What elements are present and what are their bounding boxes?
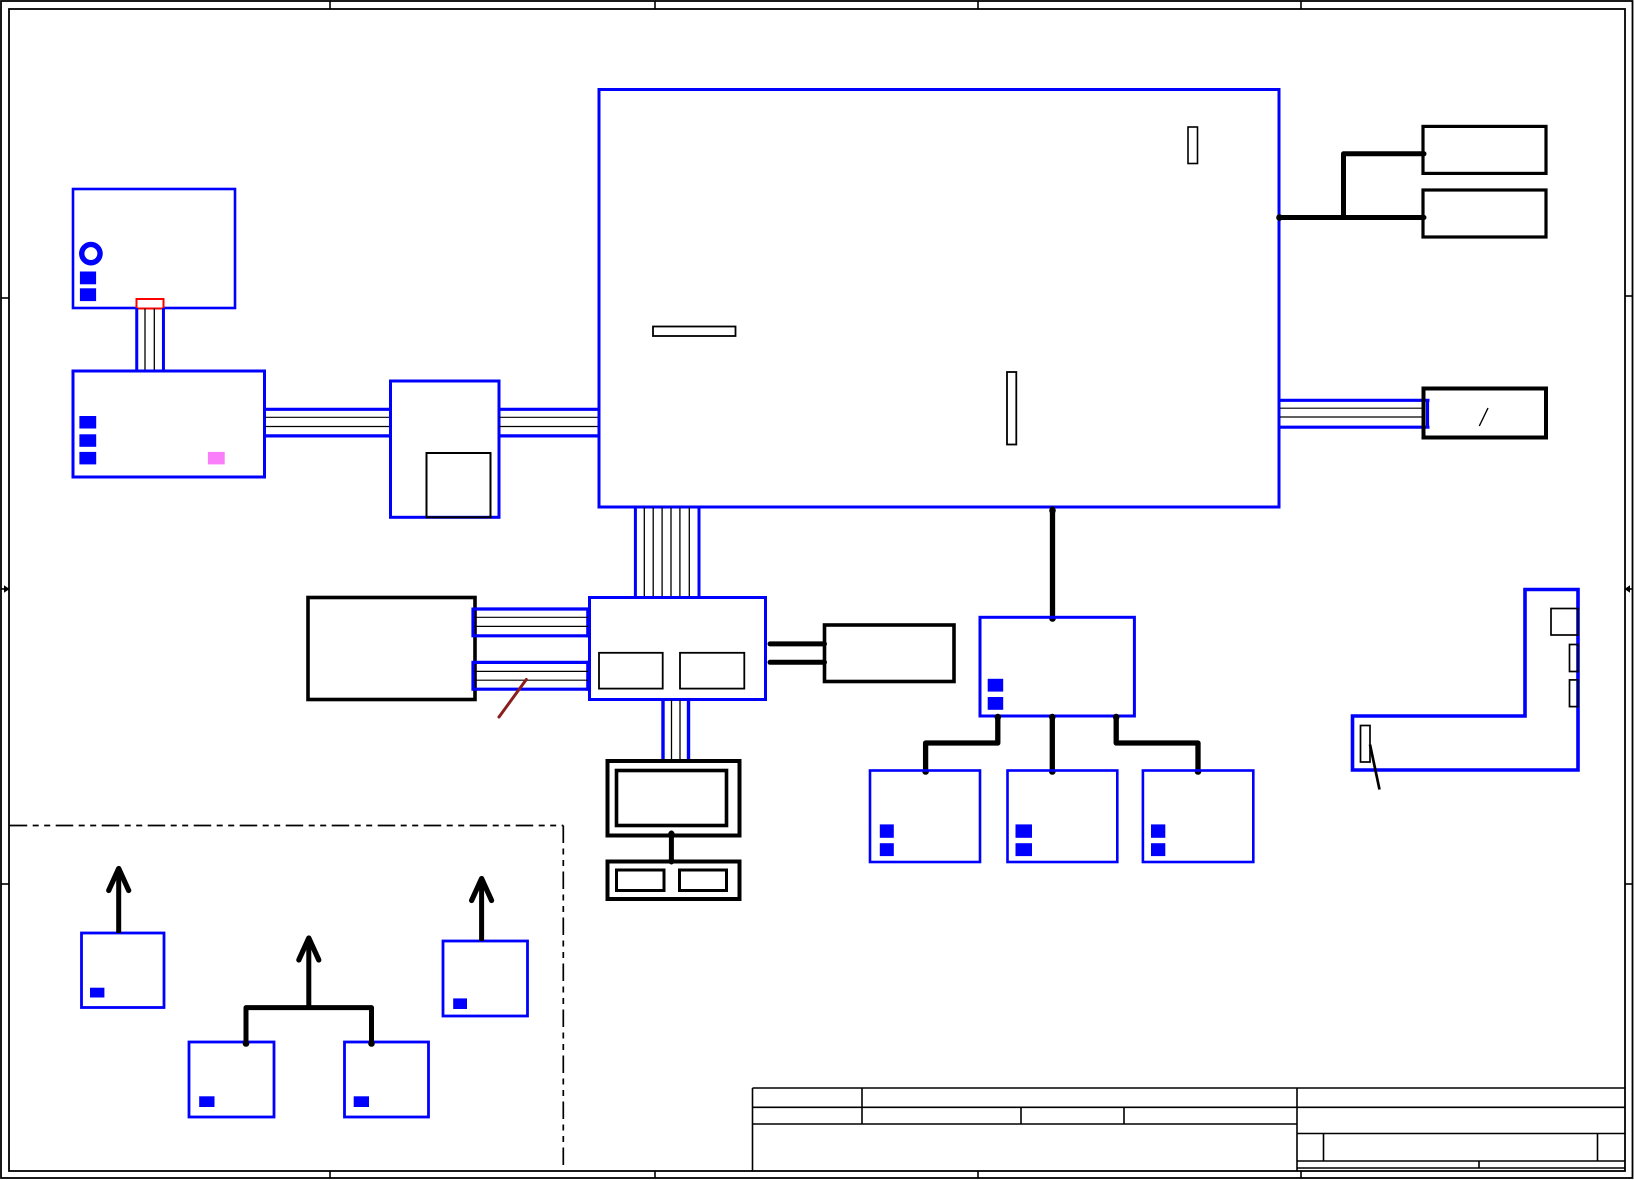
wire bracket P2/P3 (246, 1008, 372, 1044)
connector in BT1 arm (1361, 726, 1371, 763)
bus B6 X1 to U6 (bottom) (473, 661, 590, 691)
keyboard K1 key a (617, 870, 665, 891)
pad square M3 a (1151, 824, 1165, 837)
connector J1 (red) on U1 bottom (137, 299, 164, 309)
pad square M1 b (880, 843, 894, 856)
pad square P1 (90, 988, 104, 998)
block P2 (bottom-left pair left) (189, 1042, 274, 1117)
frame zone ticks right (1625, 296, 1633, 884)
block P3 (bottom-left pair right) (345, 1042, 429, 1117)
pad square M3 b (1151, 843, 1165, 856)
block M2 memory middle (1008, 771, 1118, 863)
block P4 (bottom-left right) (443, 941, 528, 1016)
block U1 top-left controller (73, 189, 235, 308)
centering arrow left (1, 585, 10, 593)
wire U4 to U5 (memory hub) (1050, 509, 1055, 618)
slash mark in J4 (1479, 408, 1488, 426)
pin header rect in U4 top-right (1188, 127, 1198, 164)
wire U6 to X2 lower (770, 660, 825, 665)
block U5 memory hub (980, 617, 1134, 716)
indicator circle in U1 (82, 244, 100, 262)
block X2 black module right (825, 625, 955, 682)
node dot at U4 bottom (1049, 507, 1056, 514)
dash-dot partition vertical (562, 826, 564, 1172)
wire D1 to K1 (669, 833, 674, 862)
display D1 outer (608, 761, 740, 836)
wire U5 to M1 (left memory) (926, 717, 998, 772)
label rect in U4 left (653, 327, 736, 337)
keyboard K1 key b (680, 870, 727, 891)
wire U6 to X2 upper (770, 641, 825, 646)
node dot at U5 top (1049, 615, 1056, 622)
pad square U5 a (988, 679, 1004, 692)
pad square M2 a (1016, 824, 1033, 837)
connector box J2 (bottom black) (1423, 190, 1546, 237)
block P1 (bottom-left) (82, 933, 165, 1008)
title block left section (753, 1087, 1626, 1089)
frame zone ticks top (330, 1, 1301, 9)
keyboard K1 outer (608, 862, 740, 900)
sub-block inside U3 (427, 453, 491, 517)
title block right section (1297, 1106, 1625, 1108)
sub-block U6 b (680, 653, 744, 689)
block M3 memory right (1143, 771, 1253, 863)
antenna arrow P4 (479, 884, 484, 941)
block U6 graphics controller (590, 598, 766, 700)
pad square U2 a (79, 416, 96, 429)
centering arrow right (1625, 585, 1634, 593)
dash-dot partition horizontal (10, 825, 564, 827)
block U4 main processor (big box) (599, 90, 1279, 508)
frame zone ticks bottom (330, 1171, 1301, 1178)
pad square U5 b (988, 697, 1004, 710)
wire branch up to J3 (1344, 154, 1425, 218)
block BT1 battery L-shape (1353, 590, 1579, 771)
wire U5 to M3 (right memory) (1116, 717, 1198, 772)
pad square M1 a (880, 824, 894, 837)
connector box J3 (top black) (1423, 126, 1546, 173)
display D1 screen (617, 771, 727, 826)
bus B3 U3 to U4 (horizontal) (499, 409, 599, 436)
bus B1 U1 to U2 (vertical) (137, 308, 164, 372)
node N1 on U4 right edge (1276, 214, 1283, 221)
block U3 bridge (391, 381, 500, 517)
pad square M2 b (1016, 843, 1033, 856)
pad square U2 b (79, 434, 96, 447)
pointer line from BT1 arm (1370, 745, 1380, 790)
wire N1 to J2 (1281, 215, 1425, 220)
antenna arrow P2/P3 (306, 944, 311, 1008)
connector in BT1 top (1551, 609, 1578, 636)
bus B5 X1 to U6 (top) (473, 608, 590, 638)
pad square U2 c (79, 452, 96, 465)
bus B4 U4 to J4 (horizontal right) (1279, 399, 1430, 429)
title block (753, 1088, 1626, 1171)
bus B8 U6 to display (vertical) (663, 700, 689, 762)
pad square P3 (354, 1096, 369, 1107)
pad square P4 (453, 998, 467, 1009)
antenna arrow P1 (116, 874, 121, 933)
block X1 black module left (308, 598, 475, 700)
bus B2 U2 to U3 (horizontal) (265, 409, 391, 436)
pad square P2 (199, 1096, 214, 1107)
sub-block U6 a (599, 653, 663, 689)
bus B7 U4 to U6 (vertical) (635, 507, 699, 598)
pad square U1 a (80, 272, 96, 285)
block U2 left controller (73, 371, 265, 477)
connector in BT1 mid (1570, 645, 1579, 672)
connector in BT1 low (1570, 680, 1579, 707)
pink pad square U2 (208, 452, 225, 465)
wire U5 to M2 (middle memory) (1050, 717, 1055, 772)
bus width slash (dark red) (499, 680, 526, 718)
pad square U1 b (80, 288, 96, 301)
block M1 memory left (870, 771, 980, 863)
pin header rect in U4 bottom-middle (1007, 372, 1016, 445)
frame zone ticks left (1, 298, 9, 884)
connector box J4 (IDE) (1424, 389, 1547, 438)
